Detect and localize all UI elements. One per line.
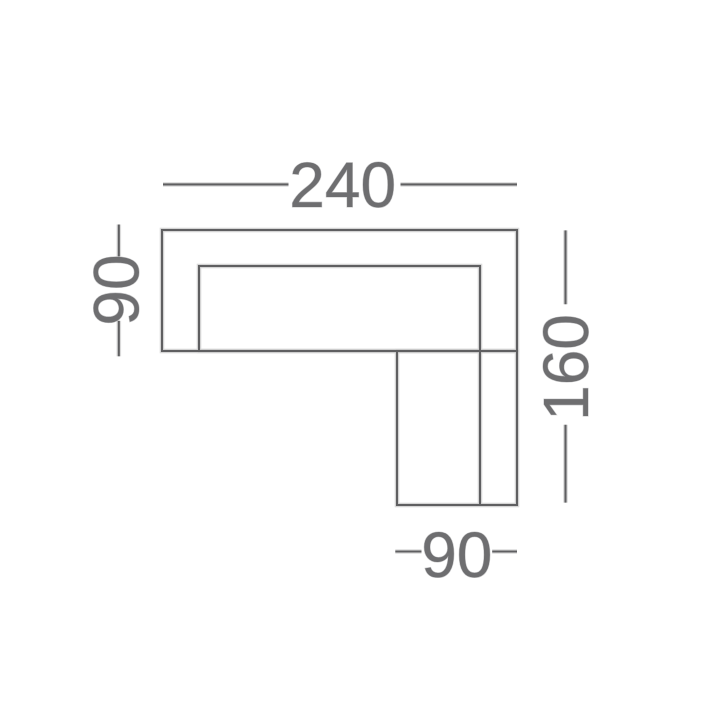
- sofa bottom section rectangle: [397, 351, 517, 505]
- right dimension line upper segment: [564, 230, 566, 304]
- soft halo under-layer duplicating all outline and dimension strokes: [119, 184, 566, 551]
- left dimension line upper segment: [118, 225, 120, 257]
- top dimension line left segment: [163, 183, 289, 185]
- bottom dimension line left segment: [395, 550, 421, 552]
- svg-text:90: 90: [81, 254, 153, 325]
- sofa outer top section rectangle: [162, 230, 517, 351]
- svg-text:90: 90: [421, 519, 492, 591]
- svg-text:160: 160: [530, 314, 602, 421]
- right dimension line lower segment: [564, 425, 566, 503]
- inner seat rectangle: [199, 266, 480, 351]
- left dimension line lower segment: [118, 321, 120, 357]
- bottom dimension line right segment: [492, 550, 517, 552]
- inner seat divider wire: [479, 351, 481, 505]
- svg-text:240: 240: [289, 149, 396, 221]
- top dimension line right segment: [401, 183, 518, 185]
